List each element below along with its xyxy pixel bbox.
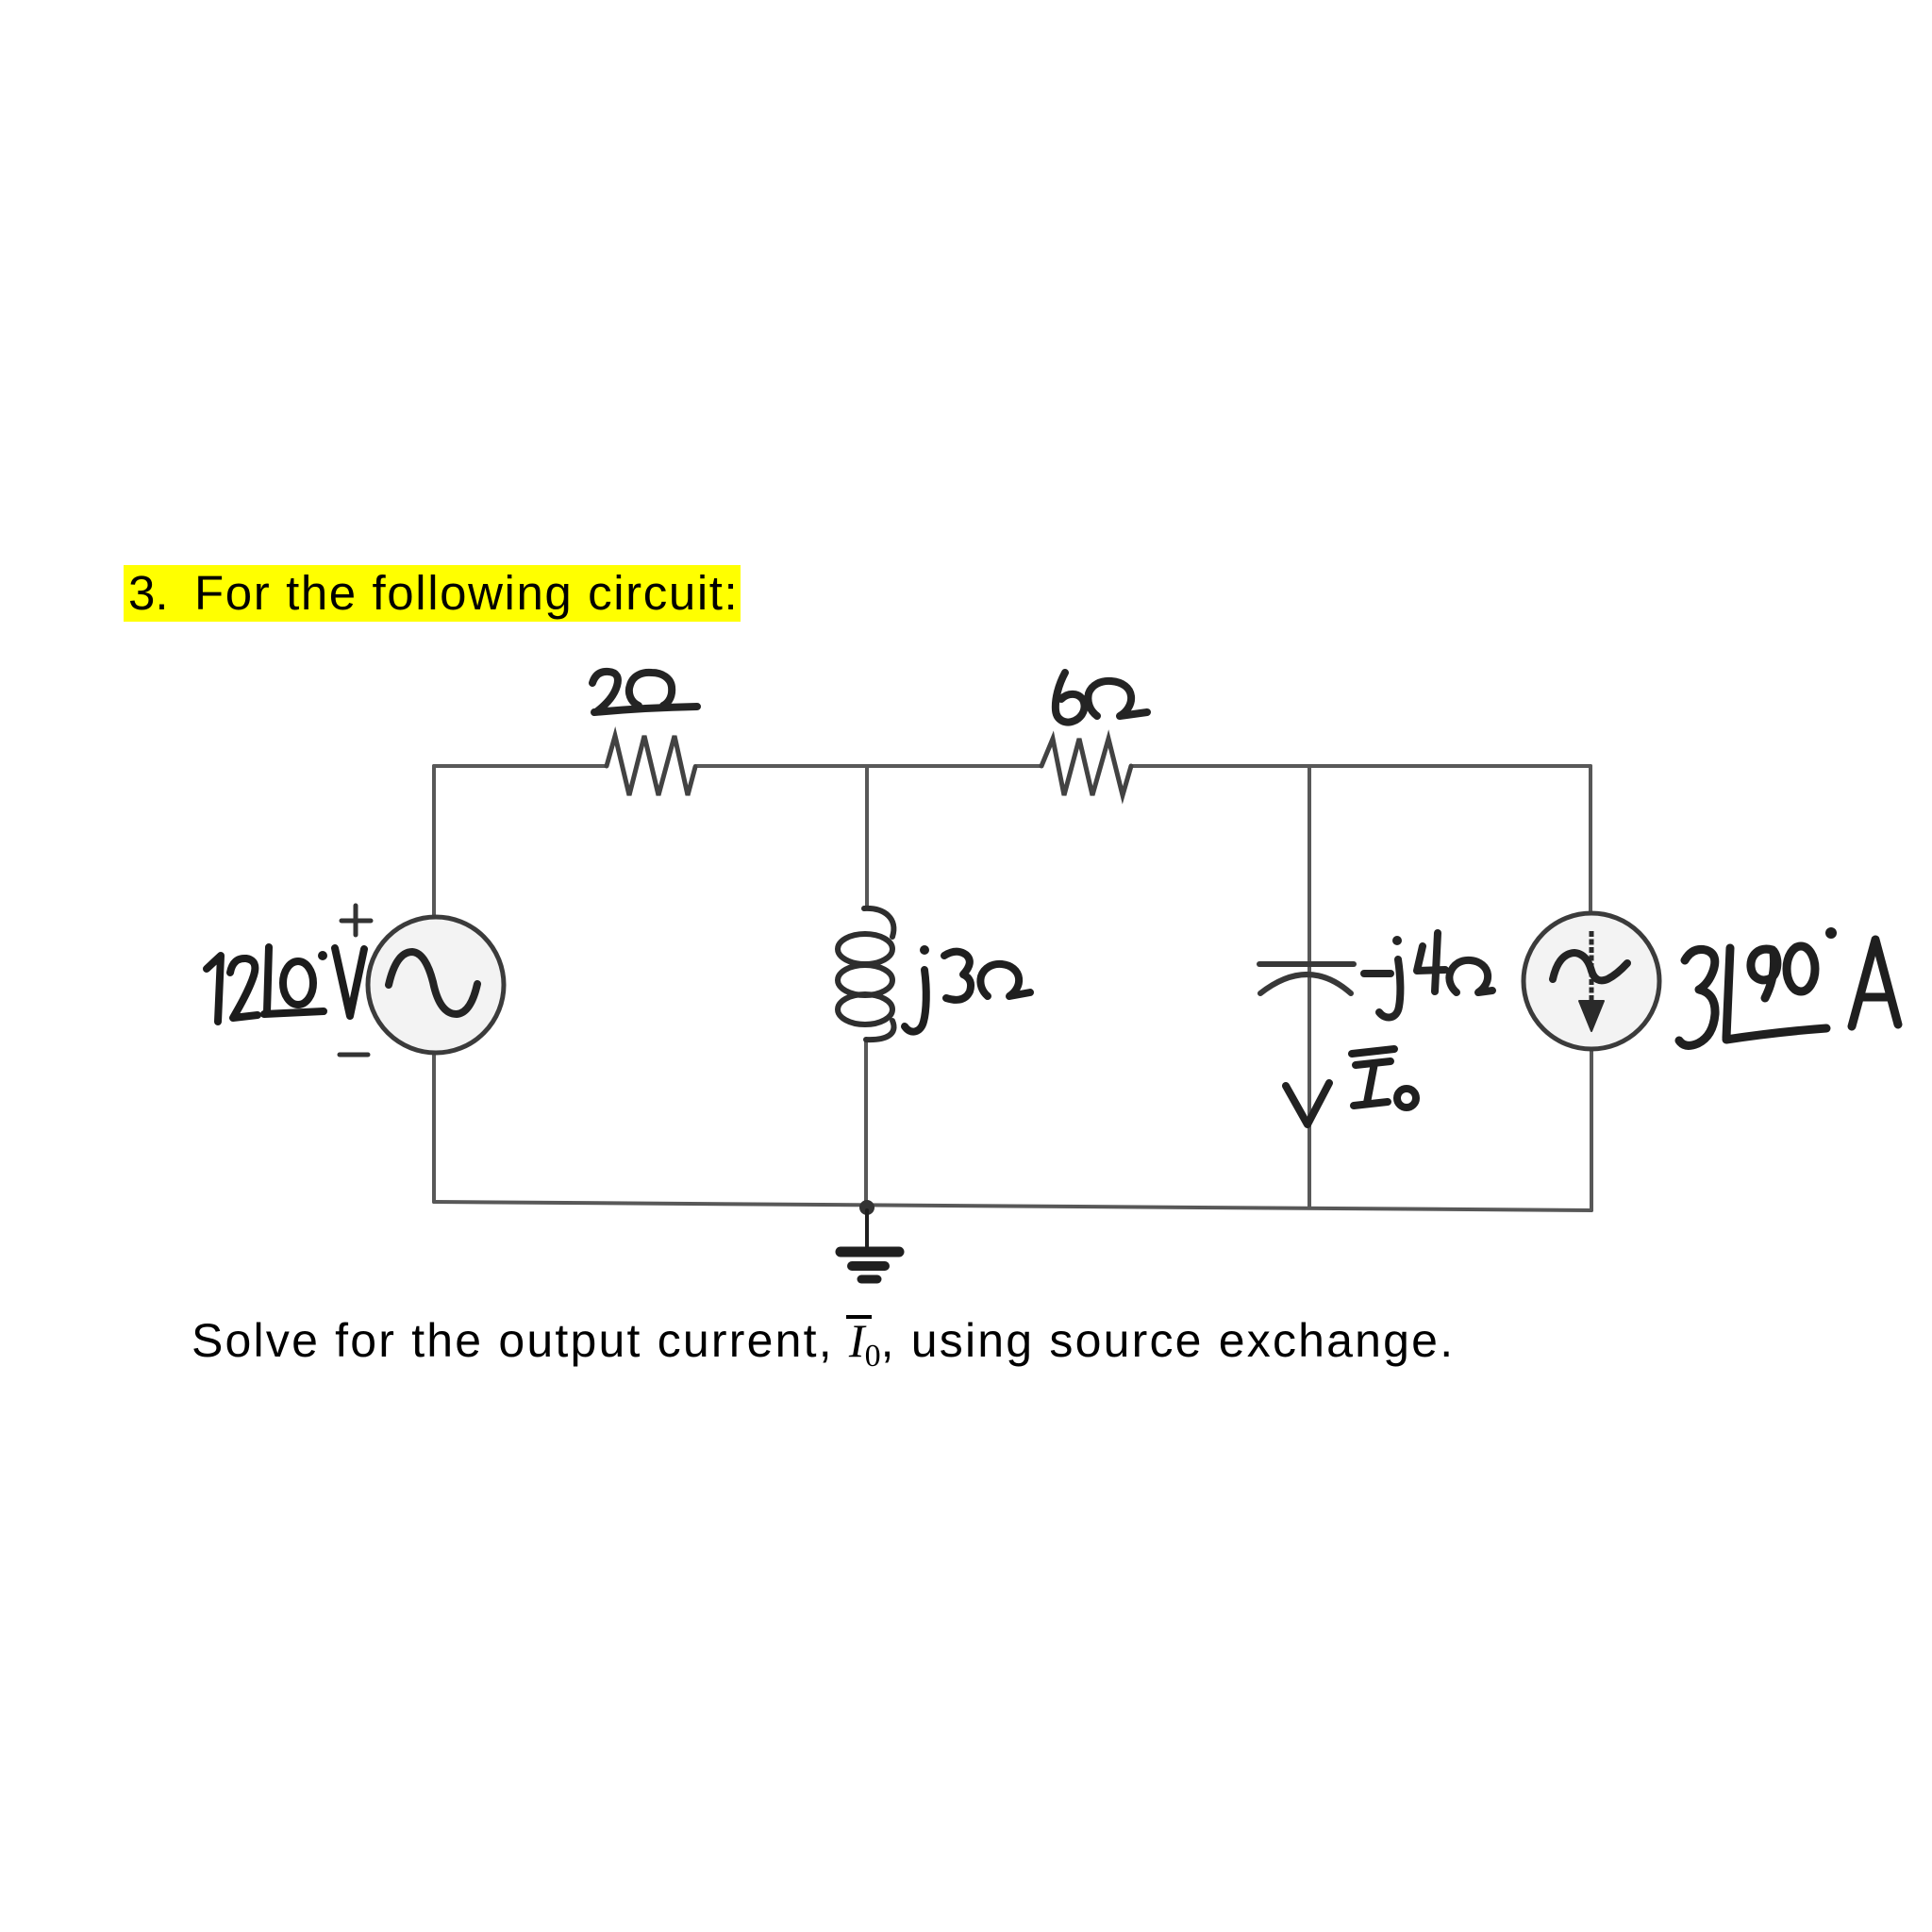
heading highlight <box>124 565 741 622</box>
j dot of -j4 <box>1392 936 1402 945</box>
wire left upper <box>432 766 436 918</box>
plus sign <box>341 906 371 935</box>
degree dot of 0 <box>318 951 327 960</box>
wire left lower <box>432 1053 436 1202</box>
wire top middle <box>695 764 1041 768</box>
node junction dot bottom middle <box>859 1200 874 1215</box>
label j3ohm <box>905 952 1030 1032</box>
current source tilde <box>1553 953 1627 980</box>
overbar of Io <box>846 1315 872 1319</box>
ground <box>841 1210 899 1279</box>
j dot <box>920 945 929 955</box>
current source I1 circle <box>1524 913 1659 1049</box>
wire middle branch lower <box>864 1040 868 1206</box>
degree dot of 90 <box>1825 927 1837 939</box>
current source arrow head <box>1579 1001 1604 1031</box>
label 3<90 A <box>1679 940 1898 1045</box>
capacitor C bottom plate arc <box>1260 974 1351 993</box>
voltage source V1 circle <box>368 917 504 1053</box>
label 12<0 V handwritten <box>207 947 364 1022</box>
wire right upper <box>1589 766 1592 913</box>
svg-text:Solve for the output current,: Solve for the output current, I0, using … <box>192 1314 1455 1374</box>
inductor L j3ohm <box>838 908 894 1040</box>
resistor R 6ohm <box>1041 739 1131 795</box>
wire right lower <box>1590 1049 1593 1210</box>
voltage source sine <box>389 952 477 1014</box>
resistor R 2ohm <box>607 736 695 795</box>
wire top left <box>434 764 607 768</box>
svg-text:3.: 3. <box>128 566 169 620</box>
label Io <box>1352 1049 1416 1108</box>
label 2ohm <box>592 672 697 712</box>
capacitor C top plate <box>1259 961 1354 967</box>
arrow Io on capacitor branch <box>1286 1083 1329 1124</box>
label -j4ohm <box>1364 933 1492 1018</box>
wire middle branch upper <box>865 766 869 908</box>
label 6ohm <box>1056 673 1147 723</box>
minus sign <box>340 1053 368 1058</box>
wire top right <box>1131 764 1591 768</box>
current source arrow stem <box>1590 931 1594 1004</box>
svg-text:For the following circuit:: For the following circuit: <box>194 566 739 620</box>
wire bottom <box>434 1202 1591 1210</box>
wire capacitor branch <box>1307 766 1311 1207</box>
